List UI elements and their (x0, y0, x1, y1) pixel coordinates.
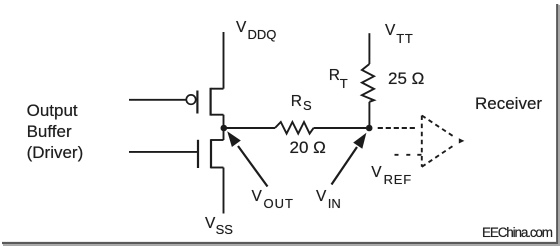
wire NMOS source to VSS (223, 168, 225, 214)
transistor Q1 (PMOS) channel bar (210, 88, 212, 116)
label Output Buffer (Driver) (27, 101, 84, 163)
frame right shade (558, 5, 560, 246)
label VSS (205, 216, 215, 232)
label VOUT (252, 189, 262, 205)
arrow VOUT shaft (238, 146, 268, 187)
watermark EEChina.com (482, 226, 552, 240)
label RS (291, 94, 302, 110)
frame bottom shade (3, 244, 559, 246)
dashed wire node B to receiver (378, 127, 415, 129)
receiver output arrowhead (459, 138, 465, 143)
wire VTT rail drop (368, 33, 370, 64)
label VTT (385, 23, 395, 39)
transistor Q2 (NMOS) top lead (211, 139, 224, 141)
label RT (329, 68, 340, 84)
transistor Q1 (PMOS) bottom lead (211, 114, 224, 116)
transistor Q2 (NMOS) bottom lead (211, 167, 224, 169)
wire RT to node B (368, 102, 370, 125)
wire node A to resistor RS (227, 127, 276, 129)
wire NMOS gate lead (129, 151, 197, 153)
dashed wire VREF corner nib (417, 154, 421, 156)
wire PMOS drain to node A (223, 115, 225, 128)
label VIN (316, 189, 326, 205)
receiver dashed triangle left edge (421, 116, 423, 167)
wire PMOS gate lead (129, 99, 186, 101)
transistor Q1 (PMOS) top lead (211, 88, 224, 90)
transistor Q2 (NMOS) channel bar (210, 139, 212, 168)
transistor Q2 (NMOS) gate bar (197, 140, 199, 168)
frame right border (556, 4, 558, 244)
node B junction dot (366, 125, 373, 132)
label 20 ohm (290, 139, 326, 156)
arrow VOUT head (227, 131, 241, 147)
label Receiver (475, 95, 542, 112)
resistor RS zigzag (275, 122, 314, 134)
arrow VIN head (353, 133, 366, 149)
arrow VIN shaft (332, 147, 358, 185)
receiver dashed triangle bottom hypotenuse (422, 145, 455, 167)
wire node A to NMOS drain (223, 128, 225, 140)
label 25 ohm (388, 70, 424, 87)
label VDDQ (236, 20, 246, 36)
dashed wire VREF stub (395, 154, 412, 156)
transistor Q1 (PMOS) gate bubble (186, 95, 195, 104)
frame bottom border (2, 242, 558, 244)
node A junction dot (221, 125, 228, 132)
transistor Q1 (PMOS) gate bar (196, 91, 198, 114)
receiver dashed triangle top hypotenuse (422, 116, 455, 138)
wire VDDQ rail drop (223, 32, 225, 89)
resistor RT zigzag (362, 64, 374, 102)
label VREF (371, 165, 381, 181)
wire RS to node B (314, 127, 367, 129)
